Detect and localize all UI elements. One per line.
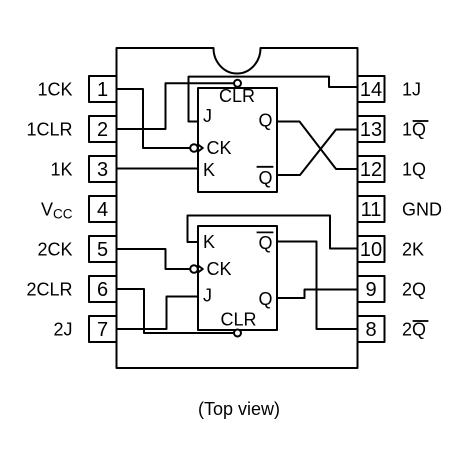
svg-text:1CK: 1CK xyxy=(37,80,72,100)
pin 3 box xyxy=(89,156,117,182)
svg-text:Q: Q xyxy=(258,233,272,253)
svg-text:CLR: CLR xyxy=(219,86,255,106)
wire pin6 to U2 CLR bubble xyxy=(117,289,235,333)
svg-text:7: 7 xyxy=(97,319,108,341)
U1 CK inversion bubble xyxy=(190,144,198,152)
pin 4 box xyxy=(89,196,117,222)
overbar for U2 Qbar output xyxy=(258,231,273,233)
svg-text:VCC: VCC xyxy=(41,200,73,222)
wire pin7 to U2 J xyxy=(117,297,199,330)
pin 2 box xyxy=(89,116,117,142)
wire pin1 to U1 CK xyxy=(117,89,190,148)
pin 5 box xyxy=(89,236,117,262)
svg-text:GND: GND xyxy=(402,200,442,220)
pin 13 box xyxy=(358,116,385,142)
svg-text:Q: Q xyxy=(258,289,272,309)
flip-flop U2 body xyxy=(198,226,277,330)
svg-text:3: 3 xyxy=(97,159,108,181)
svg-text:Q: Q xyxy=(258,111,272,131)
pin 11 box xyxy=(358,196,385,222)
svg-text:K: K xyxy=(203,160,215,180)
svg-text:CLR: CLR xyxy=(220,309,256,329)
overbar for 2Q (pin8 label) xyxy=(414,320,428,322)
svg-text:J: J xyxy=(203,286,212,306)
pin 14 box xyxy=(358,76,385,102)
svg-text:J: J xyxy=(203,106,212,126)
pin 12 box xyxy=(358,156,385,182)
svg-text:1: 1 xyxy=(97,79,108,101)
svg-text:2CK: 2CK xyxy=(37,240,72,260)
pin 8 box xyxy=(358,316,385,342)
pin 7 box xyxy=(89,316,117,342)
svg-text:1Q: 1Q xyxy=(402,160,426,180)
IC body outline with notch xyxy=(117,48,358,368)
svg-text:1K: 1K xyxy=(50,160,72,180)
svg-text:2Q: 2Q xyxy=(402,320,426,340)
pin 9 box xyxy=(358,276,385,302)
svg-text:12: 12 xyxy=(360,159,382,181)
wire U2 Q to pin9 xyxy=(277,290,358,299)
wire pin2 to U1 CLR bubble xyxy=(117,83,235,129)
svg-text:4: 4 xyxy=(97,199,108,221)
svg-text:Q: Q xyxy=(258,168,272,188)
wire U1 Q to pin12 xyxy=(277,122,358,170)
svg-text:2: 2 xyxy=(97,119,108,141)
svg-text:1J: 1J xyxy=(402,80,421,100)
svg-text:11: 11 xyxy=(361,199,382,221)
pin 1 box xyxy=(89,76,117,102)
wire pin3 to U1 K xyxy=(117,168,199,170)
U1 CLR inversion bubble xyxy=(234,80,241,87)
svg-text:8: 8 xyxy=(365,319,376,341)
svg-text:5: 5 xyxy=(97,239,108,261)
overbar for 1Q (pin13 label) xyxy=(414,120,428,122)
svg-text:2Q: 2Q xyxy=(402,280,426,300)
wire U1 Qbar to pin13 xyxy=(277,130,358,176)
svg-text:13: 13 xyxy=(360,119,382,141)
svg-text:CK: CK xyxy=(207,138,232,158)
overbar for U1 Qbar output xyxy=(258,166,273,168)
U1 CK dynamic-input triangle xyxy=(198,145,203,152)
U2 CK inversion bubble xyxy=(190,265,198,273)
svg-text:K: K xyxy=(203,232,215,252)
svg-text:2K: 2K xyxy=(402,240,424,260)
svg-text:14: 14 xyxy=(360,79,382,101)
svg-text:6: 6 xyxy=(97,279,108,301)
wire U2 Qbar to pin8 xyxy=(277,242,358,330)
svg-text:2J: 2J xyxy=(53,320,72,340)
wire U2 K to pin10 xyxy=(188,216,358,249)
U2 CK dynamic-input triangle xyxy=(198,266,203,273)
flip-flop U1 body xyxy=(198,88,277,192)
svg-text:CK: CK xyxy=(207,259,232,279)
svg-text:1Q: 1Q xyxy=(402,120,426,140)
wire pin14 to U1 J xyxy=(189,77,358,122)
svg-text:2CLR: 2CLR xyxy=(26,280,72,300)
U2 CLR inversion bubble xyxy=(234,330,241,337)
pin 6 box xyxy=(89,276,117,302)
svg-text:(Top view): (Top view) xyxy=(198,399,280,419)
svg-text:9: 9 xyxy=(365,279,376,301)
svg-text:10: 10 xyxy=(360,239,382,261)
pin 10 box xyxy=(358,236,385,262)
svg-text:1CLR: 1CLR xyxy=(26,120,72,140)
wire pin5 to U2 CK xyxy=(117,249,190,269)
